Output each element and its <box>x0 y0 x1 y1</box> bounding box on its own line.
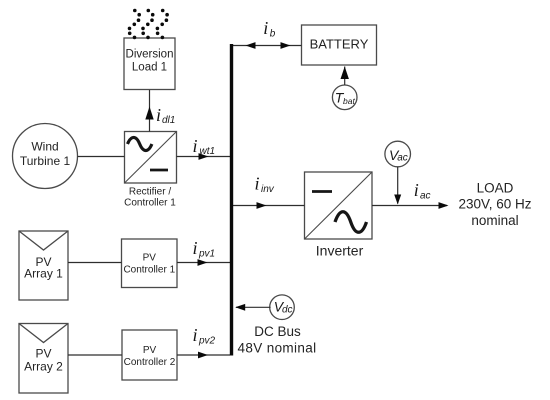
svg-text:i: i <box>156 105 161 125</box>
svg-text:Rectifier /: Rectifier / <box>129 186 171 197</box>
svg-text:i: i <box>263 18 268 38</box>
svg-text:Diversion: Diversion <box>126 49 174 61</box>
svg-text:nominal: nominal <box>471 213 518 228</box>
svg-text:PV: PV <box>143 253 157 264</box>
svg-text:ac: ac <box>420 191 431 202</box>
svg-text:Array 2: Array 2 <box>24 360 63 374</box>
svg-text:dc: dc <box>282 305 293 316</box>
svg-text:inv: inv <box>261 184 275 195</box>
svg-text:Controller 1: Controller 1 <box>124 197 176 208</box>
svg-text:LOAD: LOAD <box>477 180 514 195</box>
svg-text:i: i <box>193 136 198 156</box>
svg-text:ac: ac <box>397 152 408 163</box>
svg-text:230V, 60 Hz: 230V, 60 Hz <box>458 197 531 212</box>
svg-text:48V nominal: 48V nominal <box>238 340 317 355</box>
svg-text:pv2: pv2 <box>198 336 216 347</box>
svg-text:i: i <box>193 238 198 258</box>
svg-text:PV: PV <box>143 345 157 356</box>
svg-text:bat: bat <box>343 96 355 106</box>
svg-text:b: b <box>270 29 276 40</box>
svg-text:PV: PV <box>35 347 51 361</box>
svg-text:Load 1: Load 1 <box>132 62 167 74</box>
svg-text:pv1: pv1 <box>198 249 215 260</box>
svg-text:wt1: wt1 <box>200 146 216 157</box>
svg-text:Wind: Wind <box>31 140 58 154</box>
svg-text:DC Bus: DC Bus <box>254 324 301 339</box>
svg-text:Controller 2: Controller 2 <box>124 357 176 368</box>
svg-text:i: i <box>193 325 198 345</box>
svg-text:BATTERY: BATTERY <box>310 37 369 52</box>
svg-text:Array 1: Array 1 <box>24 267 63 281</box>
svg-text:i: i <box>255 174 260 194</box>
svg-text:Controller 1: Controller 1 <box>123 265 175 276</box>
svg-text:dl1: dl1 <box>162 115 175 126</box>
svg-text:Inverter: Inverter <box>316 243 364 259</box>
svg-text:i: i <box>414 180 419 200</box>
svg-text:Turbine 1: Turbine 1 <box>20 154 71 168</box>
